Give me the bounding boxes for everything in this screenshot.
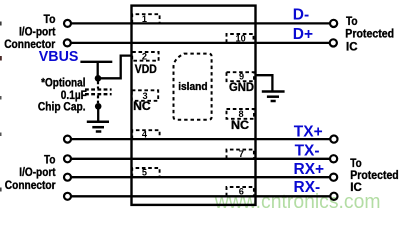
edge speck 5 [0,188,2,192]
wire TX+ net [71,138,331,140]
ground symbol left bar3 [96,130,102,133]
pin 9 box [227,72,255,81]
svg-text:VDD: VDD [135,62,157,76]
svg-text:10: 10 [235,33,245,43]
terminal circle: RX- out [330,193,337,200]
pin 10 box [227,34,254,43]
svg-text:TX-: TX- [295,143,320,160]
cap ground lead [97,106,99,122]
svg-text:4: 4 [142,129,148,139]
svg-text:VBUS: VBUS [39,49,79,65]
optional cap dashed lead top [97,81,99,88]
svg-text:D-: D- [293,6,309,23]
pin 7 box [227,150,254,159]
pin 3 box [132,90,158,101]
island outline [174,54,212,120]
junction dot VBUS/cap [95,75,102,82]
ground symbol right bar1 [262,90,285,93]
junction dot cap/ground [95,103,102,110]
wire RX+ net [71,176,331,178]
capacitor C1 top plate (dashed) [85,88,112,90]
svg-text:island: island [178,81,207,93]
svg-text:5: 5 [142,168,147,178]
ground symbol right bar3 [271,100,276,103]
wire D+ net [71,42,331,44]
terminal circle: TX- out [330,155,337,162]
ground symbol right bar2 [267,95,279,98]
edge speck 1 [0,22,2,26]
ground symbol left bar2 [92,126,104,129]
svg-text:1: 1 [142,14,147,24]
pin 6 box [227,187,254,196]
svg-text:Connector: Connector [4,37,55,51]
terminal circle: RX+ out [330,174,337,181]
wire VBUS drop to cap junction [97,62,99,79]
ground symbol left bar1 [87,121,109,124]
terminal circle: I/O-port line 5 [64,174,71,181]
svg-text:NC: NC [231,118,249,132]
svg-text:NC: NC [133,99,151,113]
svg-text:*Optional: *Optional [41,75,85,89]
wire TX- net [71,158,331,160]
wire VBUS horizontal [80,61,112,63]
terminal circle: D+ out [330,39,337,46]
pin 5 box [132,168,159,177]
wire junction to pin 2 (step) [98,56,132,79]
svg-text:RX+: RX+ [294,161,325,178]
edge speck 2 [0,56,2,61]
pin 2 box [132,52,158,61]
terminal circle: TX+ out [330,136,337,143]
pin 4 box [132,130,159,139]
edge speck 4 [0,133,2,137]
wire pin 9 to ground [255,75,273,91]
edge speck 3 [0,96,2,100]
terminal circle: I/O-port line 1 [64,20,71,27]
svg-text:IC: IC [346,40,358,54]
pin 1 box [132,14,159,23]
svg-text:www.cntronics.com: www.cntronics.com [214,191,381,213]
wire RX- net [71,195,331,197]
pin 8 box [227,109,255,119]
terminal circle: I/O-port line 4 [64,155,71,162]
svg-text:2: 2 [142,52,147,62]
capacitor C1 bottom plate (dashed) [85,93,112,95]
terminal circle: I/O-port line 2 [64,39,71,46]
svg-text:D+: D+ [293,26,313,43]
wire D- net [71,22,331,24]
svg-text:7: 7 [239,149,244,159]
svg-text:Protected: Protected [345,26,394,40]
svg-text:Chip Cap.: Chip Cap. [38,100,86,114]
terminal circle: I/O-port line 3 [64,136,71,143]
terminal circle: D- out [330,20,337,27]
svg-text:TX+: TX+ [294,123,323,140]
optional cap dashed lead bottom [97,95,99,103]
svg-text:GND: GND [229,80,254,94]
terminal circle: I/O-port line 6 [64,193,71,200]
svg-text:Connector: Connector [5,178,56,192]
IC package outline U1 [132,6,256,205]
